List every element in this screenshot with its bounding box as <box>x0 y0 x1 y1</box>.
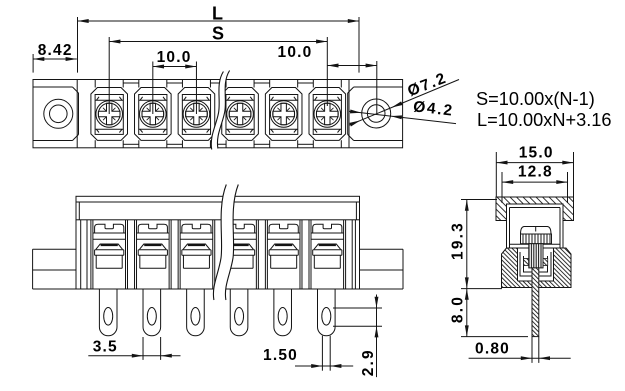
svg-text:8.42: 8.42 <box>38 42 73 59</box>
svg-text:19.3: 19.3 <box>450 221 467 260</box>
svg-text:2.9: 2.9 <box>360 348 377 376</box>
svg-text:3.5: 3.5 <box>93 339 118 356</box>
svg-text:15.0: 15.0 <box>519 145 554 162</box>
svg-text:S=10.00x(N-1): S=10.00x(N-1) <box>476 89 595 109</box>
svg-text:8.0: 8.0 <box>450 295 467 323</box>
svg-text:L: L <box>212 4 223 24</box>
svg-text:1.50: 1.50 <box>263 347 298 364</box>
svg-text:10.0: 10.0 <box>157 49 192 66</box>
svg-text:0.80: 0.80 <box>475 340 510 357</box>
svg-text:L=10.00xN+3.16: L=10.00xN+3.16 <box>477 110 612 130</box>
svg-text:S: S <box>212 24 224 44</box>
svg-text:12.8: 12.8 <box>518 163 553 180</box>
svg-text:10.0: 10.0 <box>278 44 313 61</box>
